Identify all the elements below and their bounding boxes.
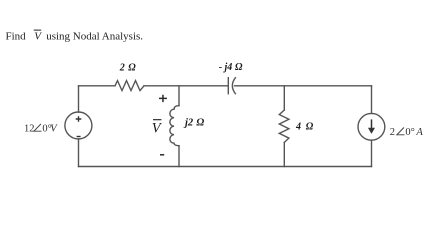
wire top middle segment [144, 85, 228, 87]
svg-text:Find: Find [6, 31, 27, 43]
svg-text:using Nodal Analysis.: using Nodal Analysis. [46, 31, 143, 43]
wire inductor branch lower [178, 146, 180, 167]
wire top right segment [235, 85, 372, 87]
svg-text:Ω: Ω [196, 117, 204, 128]
current source 2A circle [358, 113, 385, 140]
wire top-left segment [79, 85, 116, 87]
node plus sign [159, 95, 167, 102]
voltage source 12V circle [65, 112, 92, 139]
svg-text:2: 2 [119, 63, 125, 74]
wire 4 ohm branch lower [283, 142, 285, 166]
svg-text:12: 12 [24, 123, 35, 134]
label j2 ohm [183, 117, 204, 128]
svg-text:V: V [152, 121, 163, 137]
resistor 4 ohm vertical zigzag [279, 110, 289, 142]
wire inductor branch upper [178, 86, 180, 106]
title text "Find V using Nodal Analysis." [6, 31, 144, 43]
angle symbol of 2A label [397, 128, 405, 135]
node V bar overline [153, 119, 161, 121]
capacitor -j4 ohm left plate [227, 78, 229, 94]
voltage source minus sign [77, 136, 81, 138]
wire right rail lower [371, 140, 373, 166]
wire left rail upper [78, 86, 80, 112]
node minus sign [160, 154, 164, 156]
wire right rail upper [371, 86, 373, 114]
svg-text:2: 2 [390, 127, 395, 138]
title V overbar [34, 29, 42, 31]
wire left rail lower [78, 139, 80, 167]
svg-text:Ω: Ω [128, 63, 136, 74]
svg-text:V: V [50, 123, 58, 134]
svg-text:Ω: Ω [235, 62, 243, 73]
wire 4 ohm branch upper [283, 86, 285, 110]
capacitor -j4 ohm right curved plate [232, 78, 235, 94]
angle symbol of 12V label [34, 124, 42, 131]
label 4 ohm [295, 121, 314, 132]
voltage source plus sign [76, 116, 82, 122]
svg-text:j2: j2 [183, 117, 194, 128]
svg-text:V: V [34, 31, 42, 43]
label 12 angle 0 V [24, 123, 58, 134]
inductor j2 ohm coil [170, 106, 179, 146]
current source arrow [369, 119, 375, 133]
svg-text:A: A [415, 127, 423, 138]
wire bottom rail [79, 166, 372, 168]
svg-text:- j4: - j4 [219, 62, 233, 73]
resistor 2 ohm zigzag [115, 81, 144, 91]
label 2 ohm [119, 63, 137, 74]
label -j4 ohm [219, 62, 243, 73]
svg-text:0°: 0° [405, 127, 414, 138]
svg-text:4: 4 [295, 121, 301, 132]
svg-text:Ω: Ω [306, 121, 314, 132]
label 2 angle 0 A [390, 127, 424, 138]
